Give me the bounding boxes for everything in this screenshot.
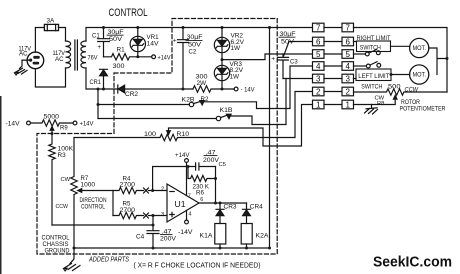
svg-text:+14V: +14V (158, 55, 171, 61)
wire R3 bottom to C4 node (52, 224, 153, 226)
wire op-amp output (199, 202, 247, 204)
transformer T1 secondary (81, 41, 86, 68)
svg-text:K1B: K1B (220, 107, 233, 114)
node -14V terminal (234, 87, 238, 91)
wires TB1 to TB2 (324, 27, 342, 29)
svg-text:-14V: -14V (6, 122, 20, 128)
svg-text:200V: 200V (203, 157, 220, 164)
wire pin7 to motor common (354, 28, 448, 93)
plug prong wire (20, 60, 31, 68)
svg-text:R9: R9 (60, 126, 68, 132)
resistor R3 100K (49, 134, 55, 226)
relay contact K1B (98, 118, 216, 120)
node +14V terminal left (73, 121, 77, 125)
svg-text:5: 5 (316, 50, 321, 59)
wire switch to motor B2 (391, 74, 410, 76)
relay coil K1A (215, 224, 226, 245)
svg-text:1: 1 (316, 100, 321, 109)
wire R4 to pin2 (148, 190, 167, 192)
svg-text:50V: 50V (109, 36, 123, 43)
svg-text:GROUND: GROUND (45, 247, 70, 254)
svg-text:C1: C1 (92, 34, 100, 40)
svg-text:100: 100 (144, 131, 156, 138)
svg-text:ADDED PARTS: ADDED PARTS (88, 257, 129, 264)
svg-text:3: 3 (316, 74, 321, 83)
svg-text:K2B: K2B (182, 97, 195, 104)
RF choke mark X R4 (144, 188, 149, 193)
svg-text:MOT.: MOT. (412, 46, 426, 52)
transformer T1 primary (66, 41, 71, 68)
capacitor C5 .47 200V (196, 163, 216, 170)
svg-text:K2A: K2A (256, 232, 270, 239)
node -14V terminal left (27, 121, 31, 125)
svg-text:5000: 5000 (44, 113, 60, 120)
svg-text:7: 7 (316, 23, 321, 32)
svg-text:SeekIC.com: SeekIC.com (373, 255, 452, 271)
capacitor C2 30uF 50V (178, 28, 189, 90)
plug chassis ground (15, 68, 28, 75)
wire fuse to transformer (59, 28, 66, 42)
rail junction nodes (102, 26, 105, 29)
resistor R6 230K (188, 167, 216, 182)
svg-text:4: 4 (316, 62, 321, 71)
svg-text:1W: 1W (230, 73, 241, 80)
svg-text:2: 2 (316, 87, 321, 96)
wire feedback from pin2 (153, 167, 196, 191)
svg-text:SWITCH: SWITCH (361, 84, 382, 90)
svg-text:R10: R10 (177, 131, 190, 138)
svg-text:AC: AC (55, 56, 64, 63)
wire K2B out to pin4 (204, 66, 313, 109)
svg-text:U1: U1 (175, 199, 186, 209)
svg-text:- 14V: - 14V (241, 87, 255, 93)
resistor R4 2700 (113, 187, 144, 193)
svg-text:R1: R1 (117, 46, 126, 53)
svg-text:CONTROL: CONTROL (81, 205, 106, 211)
svg-text:CCW: CCW (405, 87, 420, 93)
svg-text:R7: R7 (81, 176, 89, 182)
svg-text:1000: 1000 (81, 183, 96, 189)
node +14V op-amp supply (185, 159, 189, 163)
rheostat R10 100 (75, 92, 313, 141)
relay coil K2A (241, 224, 252, 245)
wire C3 bottom to pin3 (283, 78, 313, 80)
svg-text:R3: R3 (58, 152, 67, 159)
svg-text:-14V: -14V (178, 229, 193, 236)
svg-text:1: 1 (345, 100, 350, 109)
potentiometer R7 1000 (71, 138, 77, 249)
R10 wiper to pin1 (169, 105, 313, 147)
svg-text:5: 5 (345, 50, 350, 59)
capacitor C3 30uF 50V (278, 54, 289, 79)
svg-text:6: 6 (200, 197, 203, 203)
svg-text:C5: C5 (219, 162, 226, 168)
svg-text:300: 300 (113, 63, 125, 70)
diode CR1 (100, 69, 108, 89)
scan edge artifact (0, 96, 2, 274)
RF choke mark X R5 (144, 213, 149, 218)
wire long vertical supply (269, 28, 271, 249)
wire C3 to pin6 diagonal (284, 42, 313, 57)
wire VR node to pin5 (222, 54, 313, 60)
terminal strip TB2 right (342, 23, 354, 32)
svg-text:3: 3 (161, 212, 164, 218)
wire +rail top (86, 28, 313, 42)
wire bottom common (74, 247, 270, 249)
capacitor C1 30uF 50V (98, 28, 110, 57)
zener VR2 6.2V 1W (214, 37, 229, 52)
rotor potentiometer R8 500 (354, 89, 448, 95)
svg-text:4: 4 (189, 212, 192, 218)
R9 wiper arrow (51, 130, 53, 134)
svg-text:76V: 76V (88, 54, 99, 61)
wire motor commons (429, 48, 447, 75)
left limit switch S2 (354, 65, 367, 67)
relay contact K2B (98, 104, 189, 106)
resistor R5 2700 (113, 212, 144, 218)
svg-text:50V: 50V (188, 42, 202, 49)
zener VR1 14V (130, 36, 145, 51)
svg-text:7: 7 (188, 194, 191, 200)
svg-text:AC: AC (19, 50, 28, 57)
svg-text:ROTOR: ROTOR (401, 100, 421, 106)
transformer core (75, 40, 78, 70)
terminal strip TB1 left (313, 23, 325, 32)
wire R5 to pin3 (148, 215, 167, 217)
svg-text:C2: C2 (189, 50, 197, 56)
dashed added-parts boundary (37, 19, 277, 255)
svg-text:POTENTIOMETER: POTENTIOMETER (400, 107, 447, 113)
svg-text:6: 6 (316, 37, 321, 46)
svg-text:+: + (271, 55, 275, 62)
svg-text:2: 2 (345, 87, 350, 96)
svg-text:+14V: +14V (80, 122, 94, 128)
svg-text:CONTROL: CONTROL (109, 7, 148, 19)
motor B1 (410, 38, 429, 57)
svg-text:2700: 2700 (120, 207, 136, 214)
node +14V terminal (152, 55, 156, 59)
svg-text:CW: CW (61, 177, 71, 183)
svg-text:R6: R6 (196, 190, 204, 197)
svg-text:+: + (173, 38, 177, 45)
capacitor C4 .47 200V (147, 216, 159, 249)
wire K contact feed (97, 89, 99, 119)
svg-text:CR1: CR1 (90, 79, 102, 86)
svg-text:CR2: CR2 (125, 91, 138, 98)
svg-text:CR3: CR3 (224, 204, 238, 211)
zener VR3 8.2V 1W (214, 65, 229, 80)
R8 wiper (354, 99, 396, 105)
svg-text:( X= R F CHOKE LOCATION IF NEE: ( X= R F CHOKE LOCATION IF NEEDED) (134, 261, 261, 270)
svg-text:500: 500 (388, 83, 401, 90)
svg-text:+14V: +14V (175, 152, 190, 159)
svg-text:K1A: K1A (200, 232, 214, 239)
fuse F1 3A (44, 24, 58, 30)
wire AC return -14V line (86, 68, 193, 89)
svg-text:3: 3 (345, 74, 350, 83)
svg-text:14V: 14V (147, 41, 160, 48)
svg-text:LEFT LIMIT: LEFT LIMIT (358, 74, 389, 80)
resistor R1 300 (104, 54, 152, 60)
svg-text:1W: 1W (231, 45, 242, 52)
wire primary bottom return (35, 68, 65, 87)
diode CR4 (243, 203, 251, 224)
AC plug P1 (27, 52, 44, 69)
svg-text:3A: 3A (47, 17, 56, 24)
wire plug to fuse (35, 28, 44, 53)
rotor chassis ground (366, 105, 377, 109)
wire K1B out to pin3 line (231, 79, 286, 125)
svg-text:2: 2 (161, 186, 164, 192)
svg-text:200V: 200V (160, 236, 177, 243)
R7 wiper (82, 191, 114, 216)
svg-text:7: 7 (345, 23, 350, 32)
svg-text:DIRECTION: DIRECTION (80, 198, 107, 204)
control chassis ground (70, 248, 74, 264)
svg-text:C3: C3 (290, 59, 298, 65)
svg-text:6: 6 (345, 37, 350, 46)
svg-text:MOT.: MOT. (412, 73, 426, 79)
svg-text:2700: 2700 (120, 182, 136, 189)
svg-text:+: + (97, 44, 101, 51)
svg-text:2W: 2W (197, 80, 208, 87)
wire feedback to output (215, 167, 217, 204)
svg-text:CR4: CR4 (250, 204, 264, 211)
potentiometer R9 5000 (30, 120, 73, 126)
svg-text:C4: C4 (136, 233, 145, 240)
op-amp U1 (167, 184, 199, 222)
svg-text:4: 4 (345, 62, 350, 71)
node -14V op-amp supply (186, 211, 188, 221)
wire switch to motor B1 (391, 45, 410, 47)
svg-text:CCW: CCW (56, 204, 69, 210)
diode CR2 (117, 85, 119, 93)
diode CR3 (216, 203, 224, 224)
resistor R2 300 2W (193, 86, 234, 92)
motor B2 (410, 65, 429, 84)
